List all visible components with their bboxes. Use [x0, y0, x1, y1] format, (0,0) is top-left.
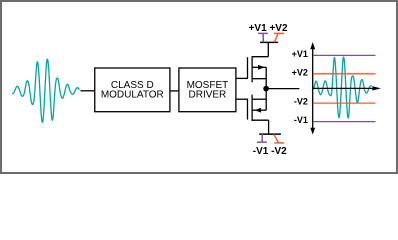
svg-text:+V2: +V2 [292, 67, 308, 77]
svg-text:+V1: +V1 [292, 49, 308, 59]
svg-text:-V1 -V2: -V1 -V2 [253, 146, 287, 157]
svg-text:+V1 +V2: +V1 +V2 [249, 23, 288, 34]
svg-text:DRIVER: DRIVER [189, 90, 227, 101]
svg-text:-V1: -V1 [294, 115, 308, 125]
svg-text:-V2: -V2 [294, 97, 308, 107]
svg-text:MODULATOR: MODULATOR [101, 90, 164, 101]
